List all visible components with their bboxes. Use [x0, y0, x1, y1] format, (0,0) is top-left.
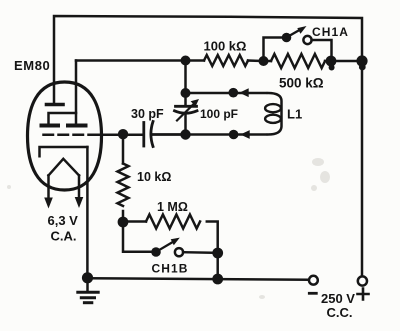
- wire grid out of tube: [96, 134, 143, 137]
- svg-text:100 pF: 100 pF: [200, 107, 238, 121]
- wire node E link to L1 bottom: [151, 133, 266, 136]
- capacitor C2 100pF stem top: [184, 93, 187, 106]
- wire C1 to node E: [153, 133, 186, 136]
- terminal CH1A circle: [303, 36, 311, 44]
- junction right rail: [356, 55, 367, 66]
- inductor L1 loop 2: [265, 115, 281, 123]
- plus sign: [358, 289, 369, 300]
- minus sign: [309, 292, 316, 295]
- ground bar 1: [78, 291, 98, 294]
- wire node C to right rail: [331, 60, 362, 63]
- terminal plus circle: [358, 276, 367, 285]
- anode plate bar (pin 1): [47, 103, 64, 107]
- switch CH1A pole dot: [282, 33, 292, 43]
- svg-text:500 kΩ: 500 kΩ: [279, 76, 324, 91]
- junction node G: [212, 248, 223, 259]
- wire target lead down to ground node: [86, 147, 89, 276]
- deflection bar right: [68, 124, 86, 128]
- junction bottom rail: [212, 274, 223, 285]
- wire CH1B terminal to node G: [183, 251, 218, 254]
- filament chevron: [49, 159, 80, 176]
- svg-text:10 kΩ: 10 kΩ: [137, 170, 171, 184]
- svg-text:CH1A: CH1A: [312, 25, 349, 39]
- wire right rail down to + terminal: [361, 61, 364, 276]
- junction dot link bottom: [229, 130, 239, 140]
- arrowhead heater right: [75, 197, 84, 208]
- wire node D link to L1 top: [186, 92, 267, 95]
- svg-text:6,3 V: 6,3 V: [48, 213, 79, 228]
- junction node E: [180, 129, 190, 139]
- wire pin2 to node A: [76, 59, 186, 62]
- junction node A: [181, 56, 191, 66]
- capacitor C1 30pF plate left: [142, 123, 145, 147]
- filament lead left: [47, 175, 50, 198]
- wire node F down to switch CH1B pole: [123, 222, 152, 252]
- wire bottom rail: [88, 278, 309, 279]
- wire node B to R2: [264, 60, 272, 63]
- terminal minus circle: [309, 276, 318, 285]
- capacitor C2 plate top: [176, 105, 197, 108]
- wire ground stem: [86, 278, 89, 291]
- wire node A to R1: [186, 59, 205, 62]
- resistor R3 10k zigzag: [118, 164, 129, 206]
- svg-text:1 MΩ: 1 MΩ: [157, 200, 188, 214]
- resistor R4 1M zigzag: [146, 215, 200, 229]
- paper smudges: [7, 158, 330, 299]
- wire CH1A terminal to node C: [312, 40, 332, 57]
- inductor L1 frame: [268, 93, 282, 135]
- filament lead right: [78, 175, 81, 198]
- arrowhead C2: [191, 99, 199, 106]
- junction grid node: [118, 129, 128, 139]
- junction ground node: [82, 272, 93, 283]
- svg-text:L1: L1: [287, 107, 302, 122]
- junction node D: [181, 88, 191, 98]
- terminal CH1B circle: [175, 248, 183, 256]
- wire R2 to node C: [325, 60, 331, 63]
- target screen bracket: [40, 147, 88, 156]
- inductor L1 loop 1: [265, 104, 281, 112]
- capacitor C2 stem bottom: [184, 114, 187, 135]
- wire grid node down to R3: [122, 134, 125, 163]
- ground bar 2: [81, 296, 94, 299]
- svg-text:EM80: EM80: [14, 58, 50, 73]
- svg-text:C.A.: C.A.: [51, 229, 77, 244]
- ground bar 3: [84, 301, 91, 304]
- svg-text:CH1B: CH1B: [152, 262, 189, 276]
- pin2 stem wire: [75, 61, 78, 125]
- junction node B: [259, 56, 269, 66]
- arrowhead link bottom: [240, 130, 249, 139]
- resistor R1 100k zigzag: [204, 55, 248, 66]
- arrowhead CH1B lever: [171, 238, 180, 246]
- svg-text:100 kΩ: 100 kΩ: [204, 39, 247, 54]
- wire node A down to C2: [184, 61, 187, 94]
- arrowhead link top: [239, 88, 248, 97]
- switch CH1B lever: [158, 243, 172, 251]
- wire top rail (anode to +250V column): [54, 16, 362, 102]
- tube U1 EM80 envelope: [28, 82, 102, 190]
- arrowhead heater left: [44, 198, 53, 209]
- wire node G down to bottom rail: [216, 253, 219, 279]
- wire R1 to node B: [248, 59, 264, 62]
- capacitor C2 arrow: [177, 103, 195, 120]
- grid (dashed): [44, 134, 97, 137]
- junction dot link top: [229, 88, 239, 98]
- arrowhead CH1A lever: [297, 26, 306, 34]
- deflection bar left: [42, 124, 59, 128]
- resistor R2 500k zigzag: [271, 54, 325, 68]
- junction node F: [118, 217, 129, 228]
- svg-text:C.C.: C.C.: [327, 305, 353, 320]
- wire R4 to node G: [207, 222, 218, 254]
- junction node C: [326, 56, 337, 67]
- wire node F to R4: [123, 220, 146, 223]
- wire node B up to switch CH1A pole: [264, 38, 284, 62]
- capacitor C1 30pF plate right: [151, 122, 153, 147]
- wire R3 to node F: [122, 211, 125, 222]
- switch CH1B pole dot: [151, 247, 161, 257]
- deflection electrode link: [49, 113, 77, 123]
- capacitor C2 plate bottom: [175, 111, 198, 113]
- svg-text:250 V: 250 V: [321, 291, 355, 306]
- svg-text:30 pF: 30 pF: [131, 107, 164, 121]
- switch CH1A lever: [289, 30, 301, 37]
